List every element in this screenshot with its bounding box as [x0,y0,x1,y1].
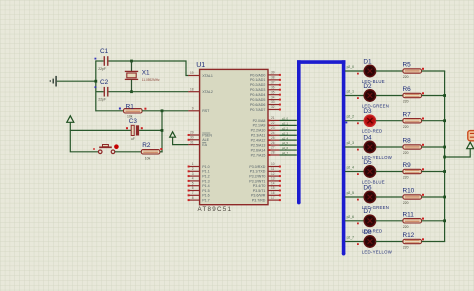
svg-text:P0.3/AD3: P0.3/AD3 [250,88,265,92]
diode D4 LED-YELLOW [364,141,375,152]
svg-text:37: 37 [271,80,275,84]
resistor R6 [403,93,422,97]
svg-text:220: 220 [403,201,409,205]
wire P2.0 to bus [280,119,297,121]
svg-text:P3.5/T1: P3.5/T1 [253,189,266,193]
svg-text:X1: X1 [142,69,150,76]
diode D7 LED-RED [364,215,375,226]
marker R5 right [422,68,424,70]
node rail row 3 [443,119,446,122]
node crystal top junction [130,60,133,63]
wire bus to D6 [345,196,364,198]
resistor R10 [403,195,422,199]
svg-text:220: 220 [403,100,409,104]
svg-text:C2: C2 [100,79,109,86]
pin P2.5 26 [251,141,280,148]
node rail row 5 [443,170,446,173]
svg-text:P1.5: P1.5 [202,189,209,193]
svg-text:p2_0: p2_0 [282,117,288,121]
svg-text:P2.3/A11: P2.3/A11 [251,134,266,138]
marker R9 right [422,168,424,170]
wire bus to D1 [345,70,364,72]
svg-text:P1.4: P1.4 [202,184,209,188]
svg-text:p2_2: p2_2 [282,126,288,130]
wire VCC down [69,122,71,131]
svg-text:22pF: 22pF [98,67,106,71]
svg-text:P3.1/TXD: P3.1/TXD [250,170,266,174]
svg-text:D6: D6 [363,184,372,191]
wire P2.7 to bus [280,154,297,156]
node gnd-C2 junction [94,80,97,83]
svg-text:23: 23 [271,126,275,130]
pin P1.6 7 [188,191,210,198]
marker D7 wire [357,223,359,225]
wire P2.1 to bus [280,124,297,126]
svg-text:XTAL2: XTAL2 [202,90,213,94]
wire R5 to rail [422,70,446,72]
wire D5 to R9 [376,171,403,173]
pin P0.1 38 [250,76,281,83]
svg-text:12: 12 [271,172,275,176]
pin PSEN 29 [188,131,213,138]
marker R1 right [144,108,146,110]
svg-text:XTAL1: XTAL1 [202,74,213,78]
svg-text:P1.0: P1.0 [202,165,209,169]
svg-text:P2.6/A14: P2.6/A14 [251,148,266,152]
pin P2.4 25 [251,136,280,143]
op U1 AT89C51 body [200,69,268,204]
svg-text:16: 16 [271,191,275,195]
pin P2.0 21 [253,116,280,123]
marker button left [93,148,95,150]
wire R10 to rail [422,196,446,198]
marker D4 wire [357,149,359,151]
pin P3.3 13 [249,177,281,184]
node rail row 7 [443,219,446,222]
svg-text:D5: D5 [363,159,372,166]
resistor R7 [403,119,422,123]
crystal X1 [125,61,138,92]
svg-text:11: 11 [271,167,275,171]
svg-text:U1: U1 [196,62,205,69]
marker R12 right [422,238,424,240]
svg-text:D2: D2 [363,83,372,90]
resistor R8 [403,145,422,149]
wire bus to D8 [345,241,364,243]
svg-text:4: 4 [192,177,194,181]
svg-text:D4: D4 [363,134,372,141]
svg-text:P0.0/AD0: P0.0/AD0 [250,73,265,77]
svg-text:P1.1: P1.1 [202,170,209,174]
pushbutton reset [98,144,118,153]
resistor R1 [124,109,143,113]
svg-text:P0.2/AD2: P0.2/AD2 [250,83,265,87]
capacitor C2 [104,87,109,97]
svg-text:R1: R1 [126,103,135,110]
power terminal VCC reset [67,116,74,123]
svg-text:17: 17 [271,196,275,200]
svg-text:p2_3: p2_3 [282,131,288,135]
wire P2.3 to bus [280,134,297,136]
wire R12 to rail [422,241,446,243]
svg-text:R12: R12 [403,232,415,239]
svg-text:P2.1/A9: P2.1/A9 [253,124,266,128]
wire C1 left [96,60,104,62]
svg-text:P1.3: P1.3 [202,179,209,183]
marker D5 wire [357,173,359,175]
svg-text:R5: R5 [403,62,412,69]
svg-text:30: 30 [190,136,194,140]
pin P2.6 27 [251,146,280,153]
svg-text:24: 24 [271,131,275,135]
svg-text:RST: RST [202,109,210,113]
svg-text:C1: C1 [100,48,109,55]
wire C3 to RST node [139,129,162,131]
wire bus to D3 [345,120,364,122]
svg-text:P3.3/INT1: P3.3/INT1 [249,179,265,183]
svg-text:32: 32 [271,105,275,109]
wire common rail [444,71,446,242]
wire P2.2 to bus [280,129,297,131]
pin EA 31 [188,140,207,147]
pin P3.2 12 [249,172,281,179]
svg-text:P2.7/A15: P2.7/A15 [251,153,266,157]
svg-text:p2_4: p2_4 [347,166,355,170]
marker C3 left [126,127,128,129]
svg-text:p2_1: p2_1 [282,121,288,125]
wire R8 to rail [422,146,446,148]
wire C2 to XTAL2 [109,91,189,93]
svg-text:P1.7: P1.7 [202,199,209,203]
pin P2.1 22 [253,121,280,128]
marker D1 wire [357,73,359,75]
svg-text:LED-RED: LED-RED [362,129,383,134]
node crystal bottom junction [130,90,133,93]
pin RST 9 [188,107,210,114]
svg-text:AT89C51: AT89C51 [198,206,233,213]
diode D1 LED-BLUE [364,65,375,76]
marker C3 right [141,127,143,129]
marker R7 right [422,118,424,120]
svg-text:C3: C3 [129,118,138,125]
svg-text:36: 36 [271,85,275,89]
svg-text:220: 220 [403,225,409,229]
marker D3 wire [357,122,359,124]
wire R6 to rail [422,95,446,97]
svg-text:P0.7/AD7: P0.7/AD7 [250,108,265,112]
bus right leg [342,60,346,254]
marker D2 wire [357,97,359,99]
svg-text:P2.0/A8: P2.0/A8 [253,119,266,123]
node rail row 2 [443,94,446,97]
node rail branch [443,156,446,159]
svg-text:9: 9 [192,107,194,111]
wire D4 to R8 [376,146,403,148]
svg-text:28: 28 [271,151,275,155]
wire R7 to rail [422,120,446,122]
marker R8 right [422,144,424,146]
terminal symbol +5V [468,131,474,141]
marker R6 right [422,92,424,94]
svg-text:P2.2/A10: P2.2/A10 [251,129,266,133]
svg-text:P3.6/WR: P3.6/WR [251,194,266,198]
svg-text:22: 22 [271,121,275,125]
pin P2.3 24 [251,131,280,138]
svg-text:P3.0/RXD: P3.0/RXD [249,165,265,169]
wire D8 to R12 [376,241,403,243]
node rail row 6 [443,196,446,199]
wire bus to D7 [345,220,364,222]
pin P0.2 37 [250,80,281,87]
svg-text:39: 39 [271,71,275,75]
marker R10 right [422,194,424,196]
wire D2 to R6 [376,95,403,97]
pin P0.6 33 [250,100,281,107]
svg-text:P1.2: P1.2 [202,175,209,179]
svg-text:13: 13 [271,177,275,181]
svg-text:3: 3 [192,172,194,176]
pin XTAL2 18 [188,87,213,94]
wire rail to power terminal [445,148,471,157]
node marker C2 left [95,86,97,88]
wire VCC to button [70,130,98,151]
svg-text:R11: R11 [403,211,415,218]
pin P2.2 23 [251,126,280,133]
wire R1 to RST [142,110,188,112]
svg-text:10k: 10k [145,157,151,161]
pin P3.1 11 [250,167,281,174]
svg-text:D8: D8 [363,229,372,236]
wire R9 to rail [422,171,446,173]
resistor R12 [403,239,422,243]
svg-text:33: 33 [271,100,275,104]
bus top segment [297,60,345,64]
svg-text:34: 34 [271,95,275,99]
power terminal VCC EA [170,132,176,137]
diode D3 LED-RED [364,115,375,126]
svg-text:R9: R9 [403,162,412,169]
wire P2.6 to bus [280,149,297,151]
pin P1.1 2 [188,167,210,174]
pin ALE 30 [188,136,210,143]
svg-text:P3.2/INT0: P3.2/INT0 [249,175,265,179]
svg-text:18: 18 [190,87,194,91]
svg-text:D7: D7 [363,208,372,215]
diode D5 LED-BLUE [364,166,375,177]
svg-text:p2_0: p2_0 [347,65,355,69]
node rail row 4 [443,146,446,149]
svg-text:26: 26 [271,141,275,145]
svg-text:R10: R10 [403,188,415,195]
svg-text:P1.6: P1.6 [202,194,209,198]
node marker R1 left [119,108,121,110]
pin P3.7 17 [252,196,281,203]
ground [50,76,57,87]
svg-text:38: 38 [271,76,275,80]
svg-text:p2_3: p2_3 [347,141,355,145]
svg-text:14: 14 [271,181,275,185]
pin P0.4 35 [250,90,281,97]
svg-text:p2_1: p2_1 [347,90,355,94]
svg-text:220: 220 [403,125,409,129]
svg-text:7: 7 [192,191,194,195]
resistor R2 [141,150,160,154]
svg-text:p2_4: p2_4 [282,136,288,140]
svg-text:31: 31 [190,140,194,144]
pin P0.5 34 [250,95,281,102]
wire gnd rail vertical [95,60,97,111]
bus left leg [297,60,301,203]
wire D3 to R7 [376,120,403,122]
svg-text:R6: R6 [403,86,412,93]
wire bus to D2 [345,95,364,97]
wire R11 to rail [422,220,446,222]
svg-text:P2.5/A13: P2.5/A13 [251,144,266,148]
node RST junction [161,109,164,112]
svg-text:5: 5 [192,181,194,185]
power terminal VCC LEDs [467,142,474,149]
diode D6 LED-GREEN [364,191,375,202]
pin P1.2 3 [188,172,210,179]
svg-text:220: 220 [403,75,409,79]
svg-text:29: 29 [190,131,194,135]
capacitor C3 electrolytic [131,125,139,135]
wire bus to D5 [345,171,364,173]
svg-text:35: 35 [271,90,275,94]
pin P1.7 8 [188,196,210,203]
svg-text:P0.6/AD6: P0.6/AD6 [250,103,265,107]
svg-text:p2_5: p2_5 [282,141,288,145]
wire RST node vertical [161,111,163,153]
svg-text:220: 220 [403,176,409,180]
svg-text:D3: D3 [363,108,372,115]
pin P1.0 1 [188,162,210,169]
wire C1 to XTAL1 [109,61,189,76]
svg-text:uF: uF [131,137,135,141]
svg-text:8: 8 [192,196,194,200]
svg-text:P0.1/AD1: P0.1/AD1 [250,78,265,82]
wire button to R2 [115,151,142,153]
wire VCC to C3 [70,129,131,131]
svg-text:P3.4/T0: P3.4/T0 [253,184,266,188]
svg-text:27: 27 [271,146,275,150]
wire D1 to R5 [376,70,403,72]
diode D2 LED-GREEN [364,90,375,101]
svg-text:p2_5: p2_5 [347,191,355,195]
svg-text:p2_2: p2_2 [347,115,355,119]
svg-text:R8: R8 [403,138,412,145]
svg-text:11.0592MHz: 11.0592MHz [142,78,160,82]
svg-text:2: 2 [192,167,194,171]
capacitor C1 [104,56,109,66]
marker D8 wire [357,243,359,245]
svg-text:PSEN: PSEN [202,133,212,137]
pin P3.5 15 [253,186,281,193]
node marker C1 left [95,58,97,60]
svg-text:220: 220 [403,151,409,155]
wire R2 to RST node [160,151,163,153]
svg-text:R2: R2 [142,142,151,149]
wire P2.5 to bus [280,144,297,146]
svg-text:P3.7/RD: P3.7/RD [252,199,266,203]
pin P2.7 28 [251,151,280,158]
pin P0.0 39 [250,71,281,78]
pin P1.3 4 [188,177,210,184]
svg-text:6: 6 [192,186,194,190]
svg-text:25: 25 [271,136,275,140]
svg-text:p2_7: p2_7 [282,151,288,155]
pin P1.5 6 [188,186,210,193]
svg-text:1: 1 [192,162,194,166]
svg-text:R7: R7 [403,111,412,118]
resistor R9 [403,169,422,173]
svg-text:D1: D1 [363,58,372,65]
svg-text:ALE: ALE [202,138,209,142]
wire gnd rail to R1 [96,110,124,112]
resistor R5 [403,69,422,73]
svg-text:P0.4/AD4: P0.4/AD4 [250,93,265,97]
svg-text:p2_6: p2_6 [347,215,355,219]
wire D7 to R11 [376,220,403,222]
svg-text:19: 19 [190,71,194,75]
marker R11 right [422,218,424,220]
resistor R11 [403,219,422,223]
svg-text:21: 21 [271,116,275,120]
diode D8 LED-YELLOW [364,236,375,247]
wire ground to rail [57,80,96,82]
wire bus to D4 [345,146,364,148]
wire VCC to EA [173,137,189,144]
svg-text:p2_6: p2_6 [282,146,288,150]
pin P3.6 16 [251,191,281,198]
node marker p2_2 [346,122,348,124]
svg-text:15: 15 [271,186,275,190]
pin P0.3 36 [250,85,281,92]
node C3 junction [161,129,164,132]
svg-text:EA: EA [202,143,207,147]
pin XTAL1 19 [188,71,213,78]
wire D6 to R10 [376,196,403,198]
svg-text:P2.4/A12: P2.4/A12 [251,139,266,143]
pin P1.4 5 [188,181,210,188]
svg-text:10: 10 [271,162,275,166]
svg-text:P0.5/AD5: P0.5/AD5 [250,98,265,102]
pin P0.7 32 [250,105,281,112]
svg-text:LED-YELLOW: LED-YELLOW [362,249,393,254]
marker R2 right [160,148,162,150]
svg-text:22pF: 22pF [98,98,106,102]
svg-text:220: 220 [403,246,409,250]
pin P3.4 14 [253,181,281,188]
pin P3.0 10 [249,162,280,169]
svg-text:p2_7: p2_7 [347,236,355,240]
wire P2.4 to bus [280,139,297,141]
marker D6 wire [357,199,359,201]
wire C2 left [96,91,104,93]
